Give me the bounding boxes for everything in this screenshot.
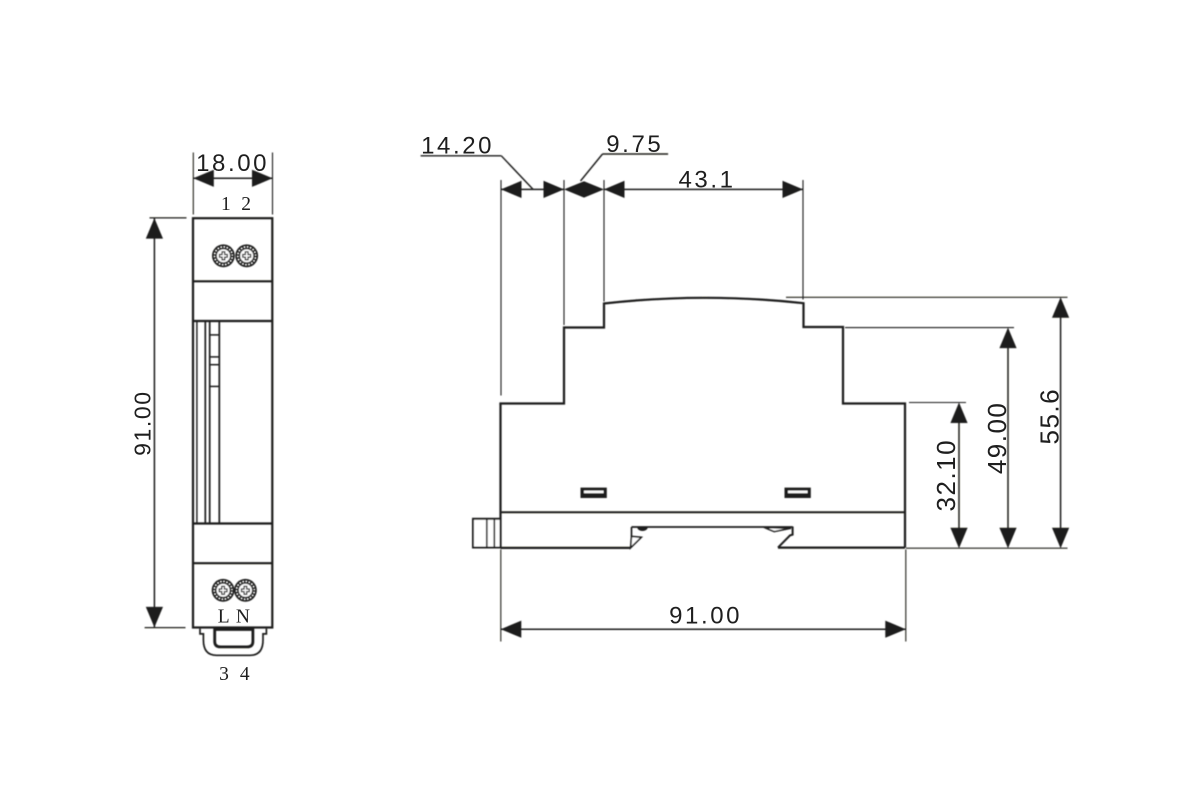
svg-text:91.00: 91.00 [669,602,742,629]
svg-text:3: 3 [219,664,229,685]
svg-text:18.00: 18.00 [196,150,269,177]
svg-text:55.6: 55.6 [1034,388,1064,445]
svg-text:2: 2 [241,194,251,215]
svg-text:L: L [218,606,230,627]
svg-text:49.00: 49.00 [982,402,1012,475]
svg-text:1: 1 [221,194,231,215]
svg-text:91.00: 91.00 [129,390,155,456]
svg-text:14.20: 14.20 [421,133,494,160]
svg-text:N: N [236,606,250,627]
svg-text:43.1: 43.1 [678,166,735,193]
svg-text:32.10: 32.10 [931,439,961,512]
svg-text:4: 4 [240,664,250,685]
svg-text:9.75: 9.75 [606,131,663,158]
